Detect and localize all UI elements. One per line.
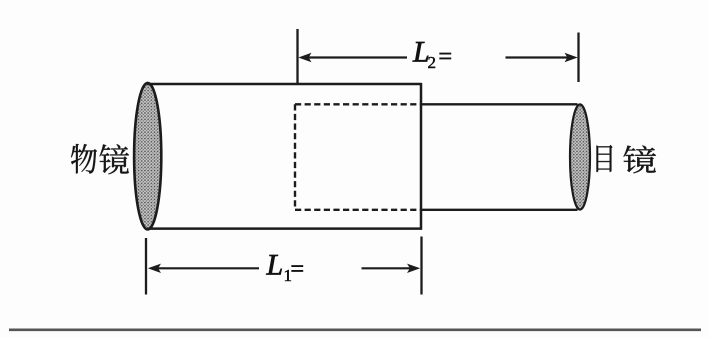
page edge bar <box>9 328 701 331</box>
L2 right arrow <box>506 56 569 58</box>
objective lens ellipse <box>134 83 161 230</box>
svg-text:L: L <box>266 248 284 281</box>
L2 left extension line <box>296 29 298 84</box>
main tube right edge <box>420 83 423 230</box>
svg-text:2: 2 <box>428 53 437 72</box>
L1 left arrow <box>157 267 259 269</box>
drawtube hidden left edge (dashed) <box>294 104 296 210</box>
L1 right arrow <box>362 267 411 269</box>
label 目镜 (eyepiece) <box>597 145 613 172</box>
L2 right extension line <box>577 33 579 83</box>
L1 right extension line <box>420 237 422 295</box>
L1 left extension line <box>145 238 147 295</box>
drawtube hidden top edge (dashed) <box>295 103 421 105</box>
eyepiece tube bottom wire <box>421 209 578 211</box>
eyepiece tube top wire <box>421 103 578 105</box>
main tube bottom wire <box>147 227 422 230</box>
label 物镜 (objective) <box>71 144 97 174</box>
main tube top wire <box>147 83 422 86</box>
svg-text:=: = <box>439 44 453 70</box>
L2 left arrow <box>308 56 407 58</box>
svg-text:=: = <box>291 257 305 283</box>
drawtube hidden bottom edge (dashed) <box>295 209 421 211</box>
eyepiece lens ellipse <box>570 104 590 209</box>
